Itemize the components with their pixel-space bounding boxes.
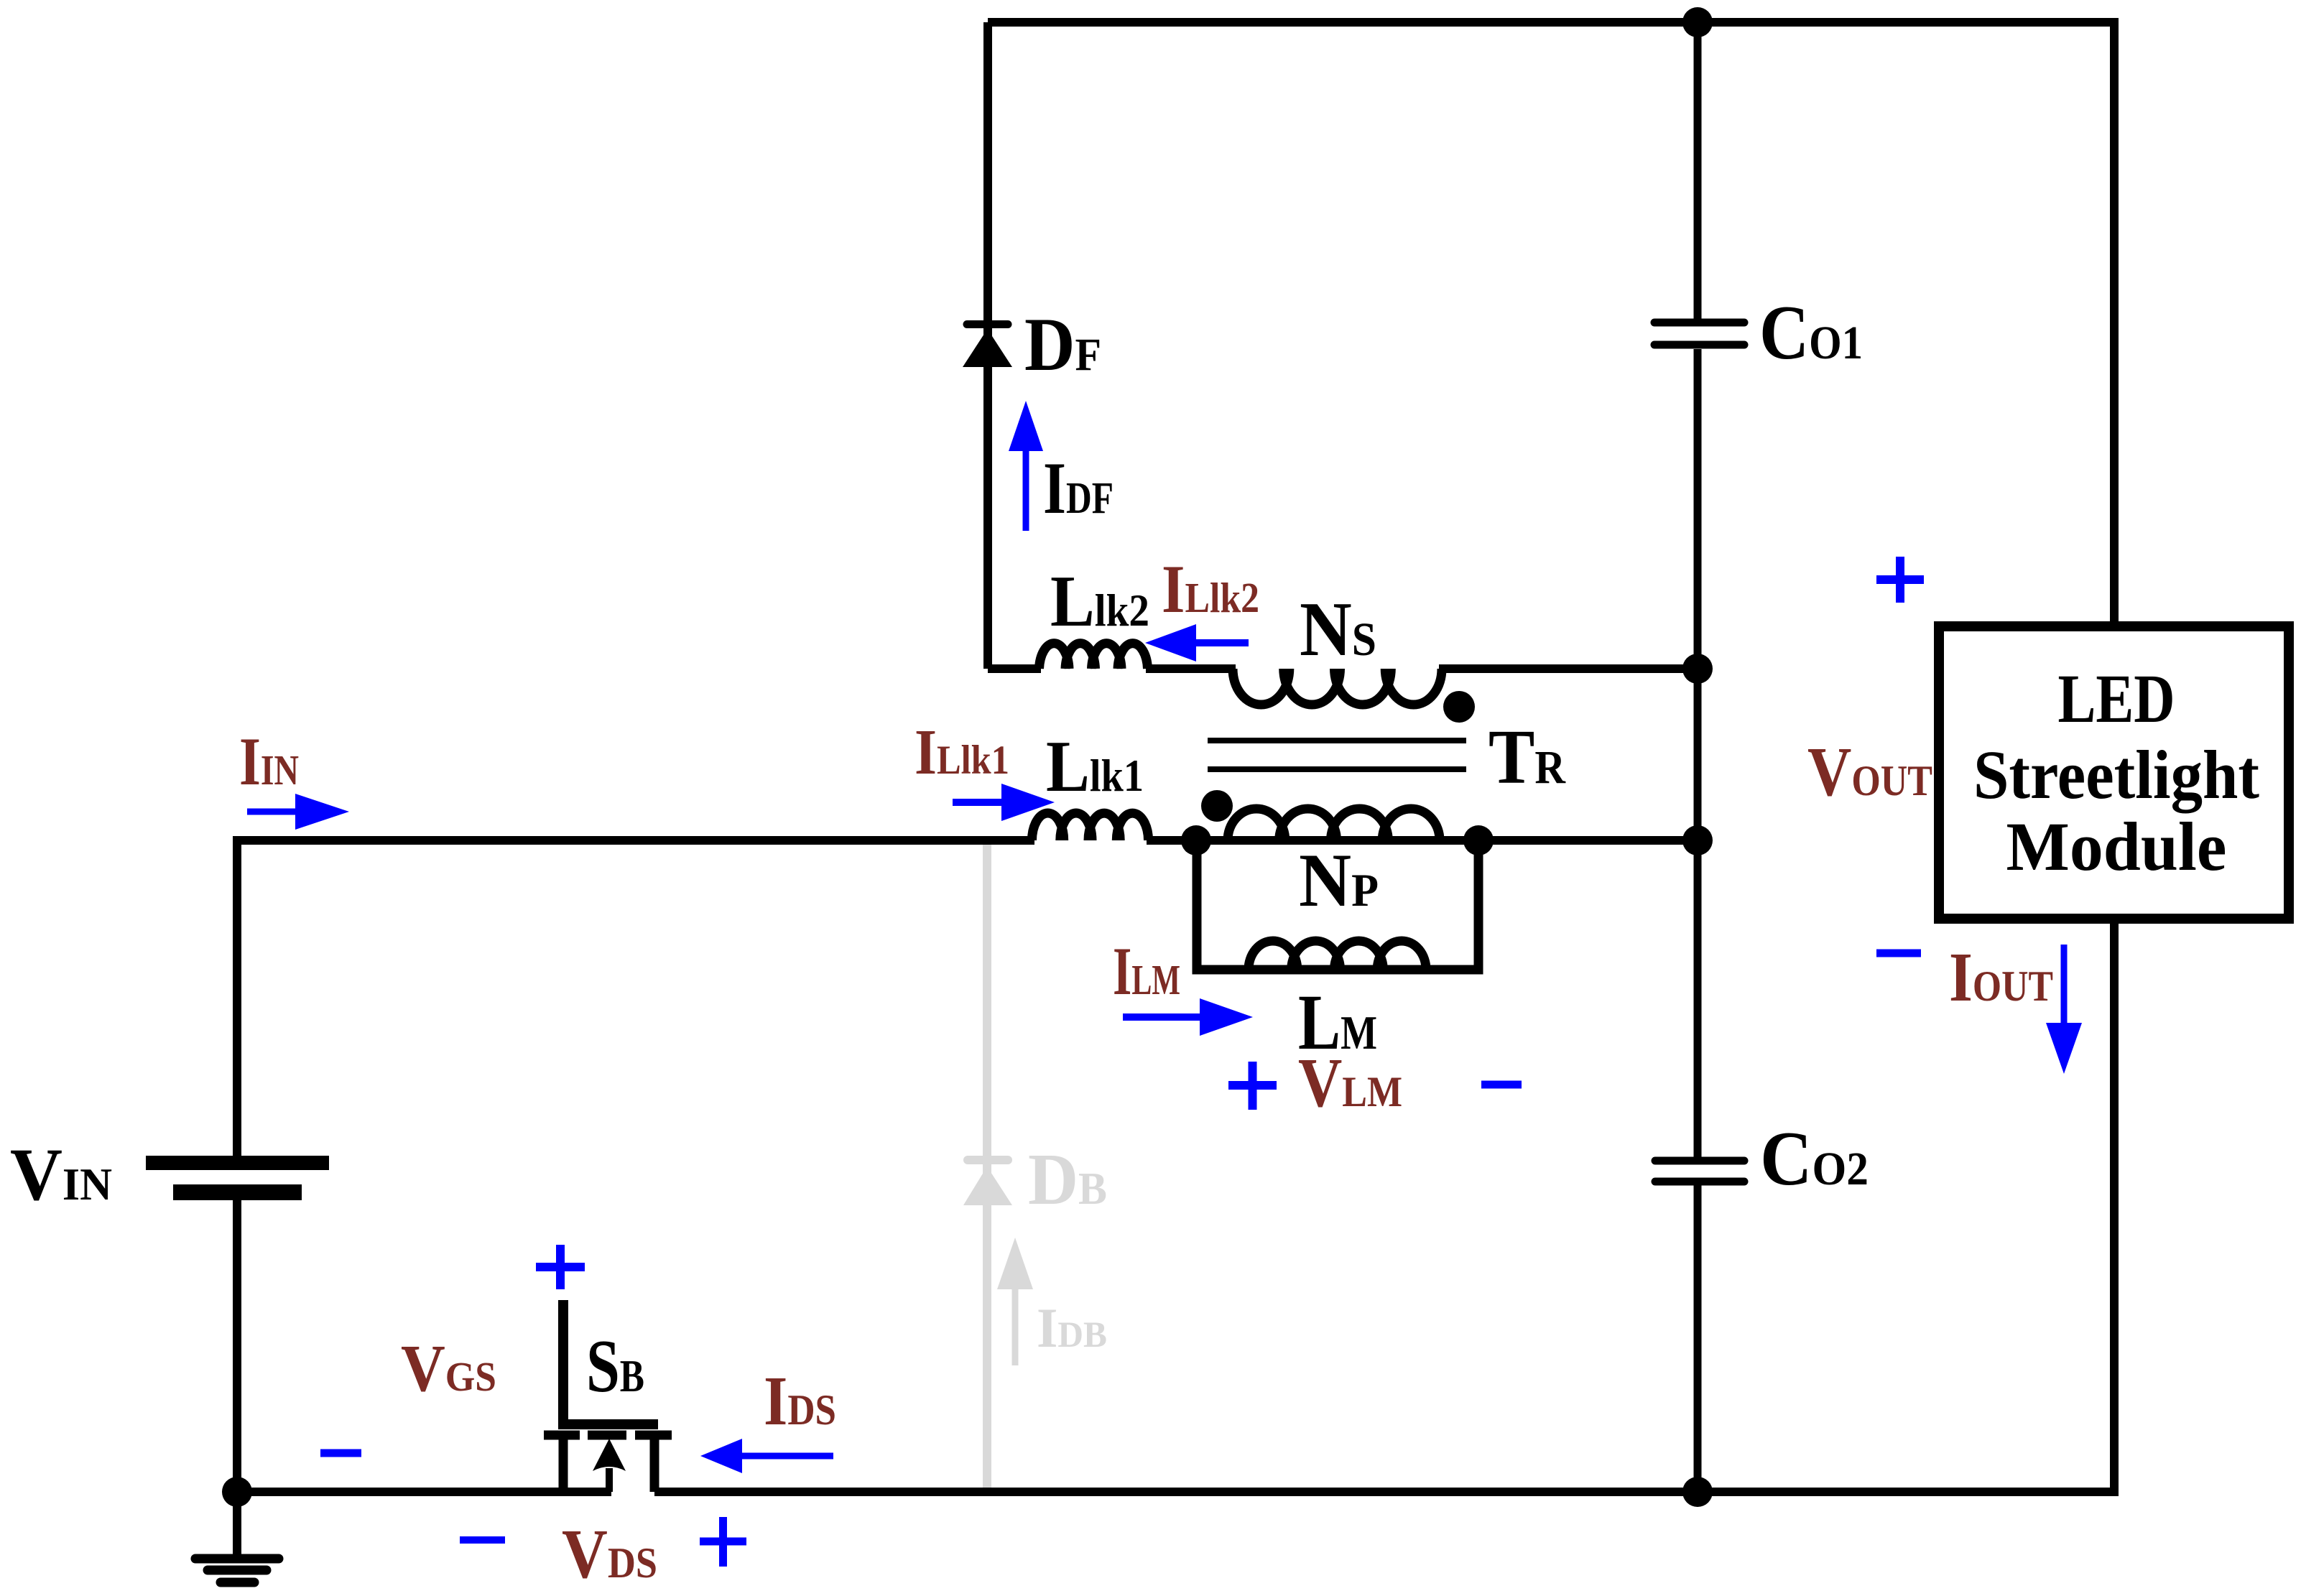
node: junction dot NP left — [1181, 825, 1211, 855]
wire: DF rail (top bus down through diode to Llk2 corner) — [983, 22, 992, 669]
diode DB rail (gray) — [983, 845, 991, 1488]
winding NP coil — [1228, 809, 1440, 840]
transistor SB source stub — [559, 1439, 568, 1492]
node: junction dot primary line / middle rail — [1682, 825, 1713, 855]
minus sign VDS (blue) — [460, 1536, 505, 1544]
plus sign VLM (blue) — [1228, 1062, 1277, 1110]
wire: middle rail (top bus to CO1) — [1694, 22, 1702, 319]
svg-text:Module: Module — [2006, 808, 2227, 885]
wire: right rail upper (top bus corner down to LED box top) — [2110, 18, 2119, 626]
node: junction dot top bus / middle rail — [1682, 7, 1713, 37]
minus sign VLM (blue) — [1481, 1081, 1522, 1089]
wire: middle rail (CO2 to bottom bus) — [1694, 1185, 1702, 1492]
wire: NP parallel branch (down, across, up) — [1197, 840, 1478, 970]
current arrow IIN (blue) — [247, 809, 295, 815]
node: junction dot NS line / middle rail — [1682, 654, 1713, 684]
node: junction dot middle rail / bottom bus — [1682, 1477, 1713, 1507]
winding NS coil (arcs below line) — [1233, 669, 1442, 705]
minus sign VOUT (blue) — [1876, 950, 1921, 957]
wire: secondary line left + Llk2 lead — [988, 664, 1041, 673]
inductor Llk2 coil — [1040, 644, 1148, 669]
current arrow ILM (blue) — [1123, 1013, 1200, 1021]
current arrow ILlk1 (blue) — [953, 799, 1001, 806]
current arrow ILlk2 (blue, left) — [1196, 639, 1249, 646]
minus sign VGS (blue) — [320, 1449, 361, 1457]
svg-text:LED: LED — [2058, 660, 2175, 737]
node: NS phase dot — [1443, 691, 1475, 723]
diode DF cathode bar — [967, 320, 1008, 328]
transistor SB drain stub — [650, 1439, 659, 1492]
transistor SB body arrow — [606, 1468, 613, 1492]
plus sign VDS (blue) — [700, 1517, 746, 1567]
LED streetlight module box — [1939, 626, 2289, 919]
ground symbol — [233, 1492, 241, 1554]
node: NP phase dot — [1201, 790, 1233, 822]
node: junction dot VIN bottom — [222, 1477, 252, 1507]
wire: primary line from Llk1 to middle rail — [1147, 836, 1698, 845]
inductor LM coil — [1249, 941, 1426, 970]
capacitor CO1 plates — [1654, 323, 1744, 345]
diode DF triangle — [963, 329, 1012, 367]
current arrow IOUT (blue, down) — [2061, 945, 2068, 1023]
diode DB triangle (gray) — [963, 1166, 1012, 1205]
diode DB cathode bar (gray) — [968, 1156, 1008, 1164]
svg-text:Streetlight: Streetlight — [1973, 736, 2259, 813]
transistor SB channel dashes — [544, 1431, 672, 1440]
wire: secondary line between Llk2 and NS — [1146, 664, 1236, 673]
plus sign VGS (blue) — [536, 1245, 585, 1289]
capacitor CO2 plates — [1655, 1161, 1744, 1182]
battery VIN bottom plate — [173, 1184, 302, 1200]
plus sign VOUT (blue) — [1876, 557, 1924, 603]
node: junction dot NP right — [1463, 825, 1494, 855]
inductor Llk1 coil — [1032, 813, 1149, 840]
transistor SB gate lead and gate bar — [563, 1300, 658, 1424]
battery VIN top plate — [146, 1156, 329, 1170]
wire: left rail upper + primary line to Llk1 — [237, 840, 1034, 1156]
wire: right rail lower + bottom bus right segment — [654, 919, 2114, 1492]
current arrow IDF (blue) — [1023, 451, 1029, 531]
wire: top bus from DF rail to right rail — [988, 18, 2114, 27]
current arrow IDB (gray) — [1012, 1286, 1019, 1365]
wire: bottom bus left segment + left rail lower — [237, 1200, 611, 1492]
transformer TR core lines — [1208, 741, 1466, 769]
wire: secondary line from NS to middle rail — [1439, 664, 1698, 673]
wire: middle rail (CO1 to CO2) — [1694, 349, 1702, 1157]
current arrow IDS (blue, left) — [742, 1453, 833, 1460]
